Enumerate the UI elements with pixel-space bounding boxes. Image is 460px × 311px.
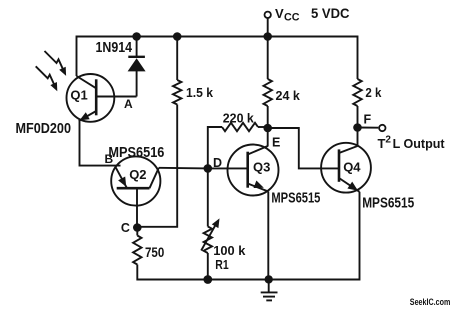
wire Q4 emitter down to rail <box>269 192 360 280</box>
svg-text:MPS6516: MPS6516 <box>108 145 164 161</box>
node ground junction <box>265 275 273 283</box>
svg-text:R1: R1 <box>215 257 228 272</box>
light arrows into Q1 <box>45 51 64 69</box>
svg-text:A: A <box>124 97 133 111</box>
transistor Q2 MPS6516 <box>111 156 160 205</box>
svg-text:2 k: 2 k <box>365 85 382 100</box>
svg-text:C: C <box>121 221 130 235</box>
svg-text:MPS6515: MPS6515 <box>271 190 320 206</box>
svg-text:2: 2 <box>385 135 391 146</box>
wire top VCC rail <box>77 37 358 80</box>
node D <box>204 164 213 173</box>
resistor 1.5 k <box>173 80 181 105</box>
node E <box>263 124 272 133</box>
svg-text:Q4: Q4 <box>343 160 361 175</box>
transistor Q4 MPS6515 <box>321 143 371 193</box>
svg-text:E: E <box>272 136 280 150</box>
transistor Q3 MPS6515 <box>228 145 279 196</box>
svg-text:L Output: L Output <box>393 136 446 151</box>
wire node A : diode anode to Q1 base <box>96 96 136 98</box>
svg-text:750: 750 <box>145 245 164 260</box>
svg-text:Q2: Q2 <box>129 167 146 182</box>
resistor 24 k <box>264 79 272 106</box>
ground symbol <box>268 279 270 292</box>
svg-text:MF0D200: MF0D200 <box>16 121 72 137</box>
svg-text:Q3: Q3 <box>253 160 270 175</box>
svg-text:T: T <box>378 136 386 151</box>
svg-text:MPS6515: MPS6515 <box>362 196 414 212</box>
svg-text:1.5 k: 1.5 k <box>186 85 214 100</box>
svg-text:1N914: 1N914 <box>96 39 133 56</box>
svg-text:100 k: 100 k <box>213 243 246 258</box>
wire B : Q1 emitter to Q2 emitter <box>80 121 121 166</box>
resistor R1 100 k variable <box>207 168 209 226</box>
node diode-top on rail <box>132 32 141 41</box>
wire D to Q3 base <box>208 167 248 169</box>
transistor Q1 MF0D200 phototransistor <box>67 74 115 122</box>
resistor 750 <box>133 236 141 265</box>
wire Q3 emitter to ground rail <box>267 192 269 280</box>
svg-text:V: V <box>275 6 284 21</box>
svg-text:F: F <box>364 113 372 127</box>
wire E to Q4 base <box>268 128 339 168</box>
svg-text:24 k: 24 k <box>276 88 301 103</box>
resistor 220 k <box>222 123 258 131</box>
diode D1 1N914 <box>136 37 138 57</box>
wire F to output terminal <box>358 127 379 129</box>
resistor 2 k <box>353 79 361 106</box>
svg-text:CC: CC <box>284 11 300 23</box>
node F <box>353 123 362 132</box>
terminal T2L output <box>379 125 385 131</box>
terminal VCC <box>265 12 271 18</box>
node VCC rail junction <box>263 32 272 41</box>
svg-text:5 VDC: 5 VDC <box>311 6 350 21</box>
svg-text:220 k: 220 k <box>223 110 255 125</box>
svg-text:Q1: Q1 <box>70 88 87 103</box>
wire Q2 collector to node D <box>159 167 208 170</box>
svg-text:SeekIC.com: SeekIC.com <box>410 297 451 308</box>
node C <box>133 223 142 232</box>
node R1 bottom <box>203 275 212 284</box>
node 1.5k-top on rail <box>173 32 182 41</box>
